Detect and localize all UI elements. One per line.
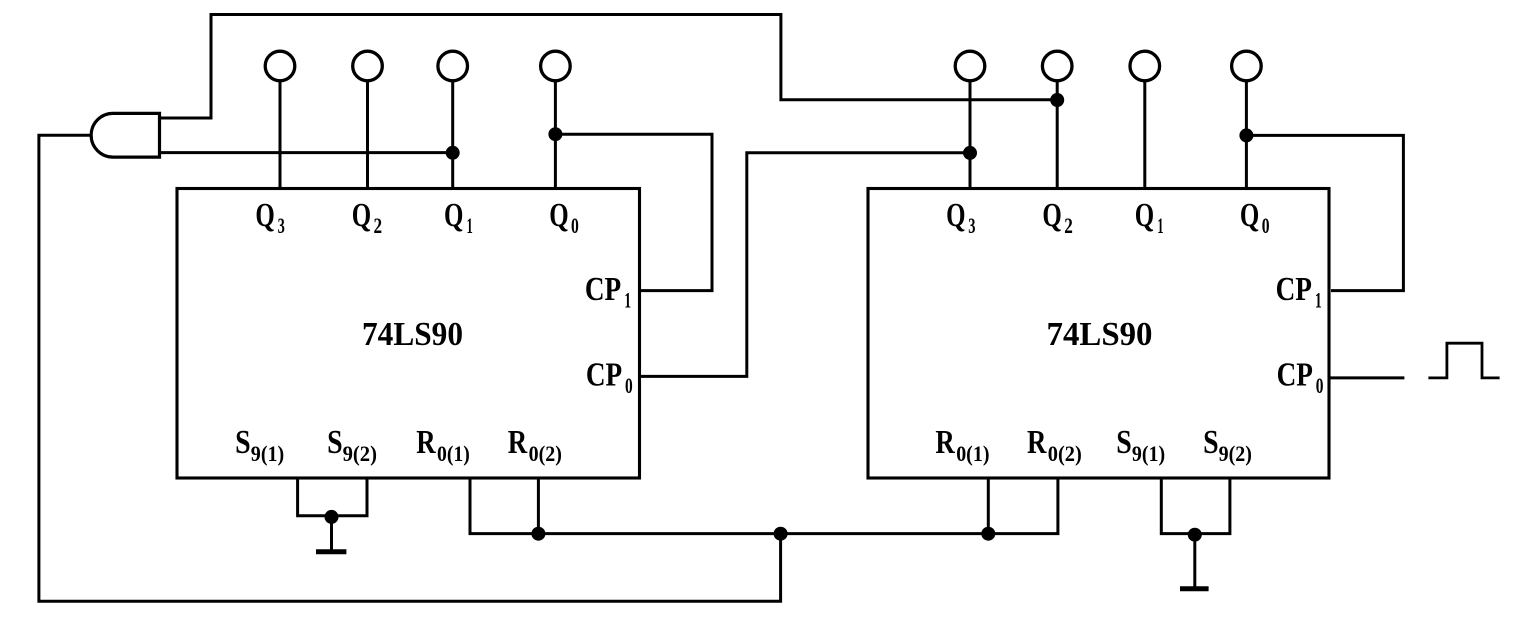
- svg-text:Q: Q: [444, 197, 463, 234]
- pin label Q0 of U2: [1240, 197, 1270, 238]
- pin label R0(1) of U1: [416, 424, 470, 466]
- pin label R0(1) of U2: [935, 424, 989, 466]
- svg-text:9(2): 9(2): [1219, 441, 1252, 466]
- output terminal Q1 of U2: [1130, 51, 1160, 81]
- svg-text:0: 0: [1262, 213, 1270, 238]
- output terminal Q1 of U1: [438, 51, 468, 81]
- output terminal Q3 of U2: [955, 51, 985, 81]
- svg-text:S: S: [1203, 424, 1219, 461]
- wire: stem terminal Q3 of U2: [969, 81, 972, 187]
- svg-text:1: 1: [624, 288, 631, 313]
- ground bar of U2 S9 pins: [1180, 586, 1209, 591]
- wire: AND gate U3 bottom input from node Q1 of U1: [160, 151, 453, 154]
- svg-text:3: 3: [968, 213, 975, 238]
- junction: Q0 stem of U2 with CP1 wire: [1239, 128, 1253, 142]
- pin label Q1 of U1: [444, 197, 473, 238]
- svg-text:1: 1: [1157, 213, 1163, 238]
- wire: stem terminal Q3 of U1: [279, 81, 282, 187]
- wire: ground stem of U2 S9 pins: [1193, 534, 1196, 588]
- svg-text:Q: Q: [946, 197, 965, 234]
- svg-text:74LS90: 74LS90: [1047, 316, 1153, 353]
- wire: stem terminal Q1 of U1: [451, 81, 454, 187]
- junction: AND output loop on reset bus: [774, 527, 788, 541]
- output terminal Q0 of U1: [541, 51, 571, 81]
- wire: CP0 of U1 from Q3 of U2: [641, 153, 971, 377]
- wire: ground stem of U1 S9 pins: [330, 516, 333, 551]
- svg-text:74LS90: 74LS90: [362, 316, 463, 353]
- junction: R0(2) stem of U1 on reset bus: [531, 527, 545, 541]
- wire: stem terminal Q2 of U1: [366, 81, 369, 187]
- pin label CP1 of U2: [1276, 271, 1322, 313]
- svg-text:Q: Q: [1042, 197, 1061, 234]
- svg-text:CP: CP: [1276, 271, 1312, 308]
- svg-text:Q: Q: [549, 197, 568, 234]
- svg-text:R: R: [416, 424, 436, 461]
- svg-text:0(2): 0(2): [1048, 441, 1082, 466]
- pin label CP0 of U1: [586, 357, 633, 399]
- svg-text:0(1): 0(1): [956, 441, 989, 466]
- pin label Q2 of U2: [1042, 197, 1072, 238]
- svg-text:0(2): 0(2): [529, 441, 562, 466]
- wire: CP0 input stub of U2: [1331, 376, 1405, 379]
- svg-text:S: S: [235, 424, 251, 461]
- wire: Q0 of U1 to CP1 of U1: [555, 134, 712, 290]
- ground bar of U1 S9 pins: [316, 549, 346, 554]
- pin label Q3 of U1: [255, 197, 284, 238]
- IC U2 74LS90 body: [868, 189, 1329, 479]
- wire: R0(2) pin stem of U1: [537, 479, 540, 534]
- pin label Q2 of U1: [352, 197, 382, 238]
- svg-text:CP: CP: [1277, 357, 1313, 394]
- junction: S9 tie of U1 to ground: [325, 510, 339, 524]
- svg-text:Q: Q: [352, 197, 371, 234]
- junction: S9 tie of U2 to ground: [1188, 528, 1202, 542]
- svg-text:0: 0: [625, 373, 633, 398]
- svg-text:1: 1: [1315, 288, 1322, 313]
- wire: R0 reset bus from R0(1) of U1 to R0(2) of U2: [470, 479, 1058, 534]
- output terminal Q2 of U2: [1042, 51, 1072, 81]
- svg-text:Q: Q: [255, 197, 274, 234]
- svg-text:CP: CP: [586, 357, 622, 394]
- junction: Q3 stem of U2 with CP0 wire of U1: [963, 146, 977, 160]
- wire: stem terminal Q1 of U2: [1143, 81, 1146, 187]
- svg-text:CP: CP: [585, 271, 621, 308]
- pin label Q3 of U2: [946, 197, 975, 238]
- svg-text:3: 3: [278, 213, 285, 238]
- svg-text:1: 1: [467, 213, 473, 238]
- svg-text:9(1): 9(1): [251, 441, 284, 466]
- pin label S9(1) of U1: [235, 424, 284, 466]
- wire: S9(1)/S9(2) pins of U1 tied together: [298, 479, 367, 516]
- svg-text:S: S: [327, 424, 343, 461]
- pin label R0(2) of U2: [1027, 424, 1082, 466]
- wire: Q0 of U2 to CP1 of U2: [1246, 135, 1403, 290]
- IC U1 74LS90 body: [177, 189, 640, 479]
- svg-text:2: 2: [374, 213, 383, 238]
- output terminal Q0 of U2: [1232, 51, 1262, 81]
- wire: AND gate U3 output net to R0 reset bus: [39, 135, 781, 601]
- pin label CP0 of U2: [1277, 357, 1324, 399]
- AND gate U3 (pointing left): [91, 113, 159, 157]
- wire: R0(1) pin stem of U2: [987, 479, 990, 534]
- pin label Q0 of U1: [549, 197, 579, 238]
- svg-text:R: R: [935, 424, 955, 461]
- wire: S9(1)/S9(2) pins of U2 tied together: [1161, 479, 1230, 534]
- junction: R0(1) stem of U2 on reset bus: [981, 527, 995, 541]
- junction: Q0 stem of U1 with CP1 wire: [548, 127, 562, 141]
- pin label Q1 of U2: [1135, 197, 1164, 238]
- wire: stem terminal Q0 of U1: [554, 81, 557, 187]
- wire: stem terminal Q2 of U2: [1056, 81, 1059, 187]
- clock pulse symbol at CP0 of U2: [1428, 343, 1499, 378]
- junction: Q2 stem of U2 with AND top input wire: [1050, 93, 1064, 107]
- svg-text:2: 2: [1064, 213, 1073, 238]
- svg-text:9(1): 9(1): [1132, 441, 1165, 466]
- wire: stem terminal Q0 of U2: [1245, 81, 1248, 187]
- svg-text:0(1): 0(1): [437, 441, 470, 466]
- svg-text:R: R: [1027, 424, 1047, 461]
- svg-text:9(2): 9(2): [343, 441, 377, 466]
- junction: Q1 stem of U1 with AND input: [446, 146, 460, 160]
- svg-text:R: R: [508, 424, 528, 461]
- wire: AND gate U3 top input net from Q2 of U2: [160, 15, 1058, 119]
- svg-text:0: 0: [571, 213, 579, 238]
- pin label S9(2) of U2: [1203, 424, 1252, 466]
- pin label S9(2) of U1: [327, 424, 377, 466]
- output terminal Q3 of U1: [265, 51, 295, 81]
- pin label CP1 of U1: [585, 271, 631, 313]
- svg-text:Q: Q: [1240, 197, 1259, 234]
- svg-text:0: 0: [1316, 373, 1324, 398]
- output terminal Q2 of U1: [353, 51, 383, 81]
- pin label S9(1) of U2: [1116, 424, 1165, 466]
- svg-text:Q: Q: [1135, 197, 1154, 234]
- pin label R0(2) of U1: [508, 424, 562, 466]
- svg-text:S: S: [1116, 424, 1132, 461]
